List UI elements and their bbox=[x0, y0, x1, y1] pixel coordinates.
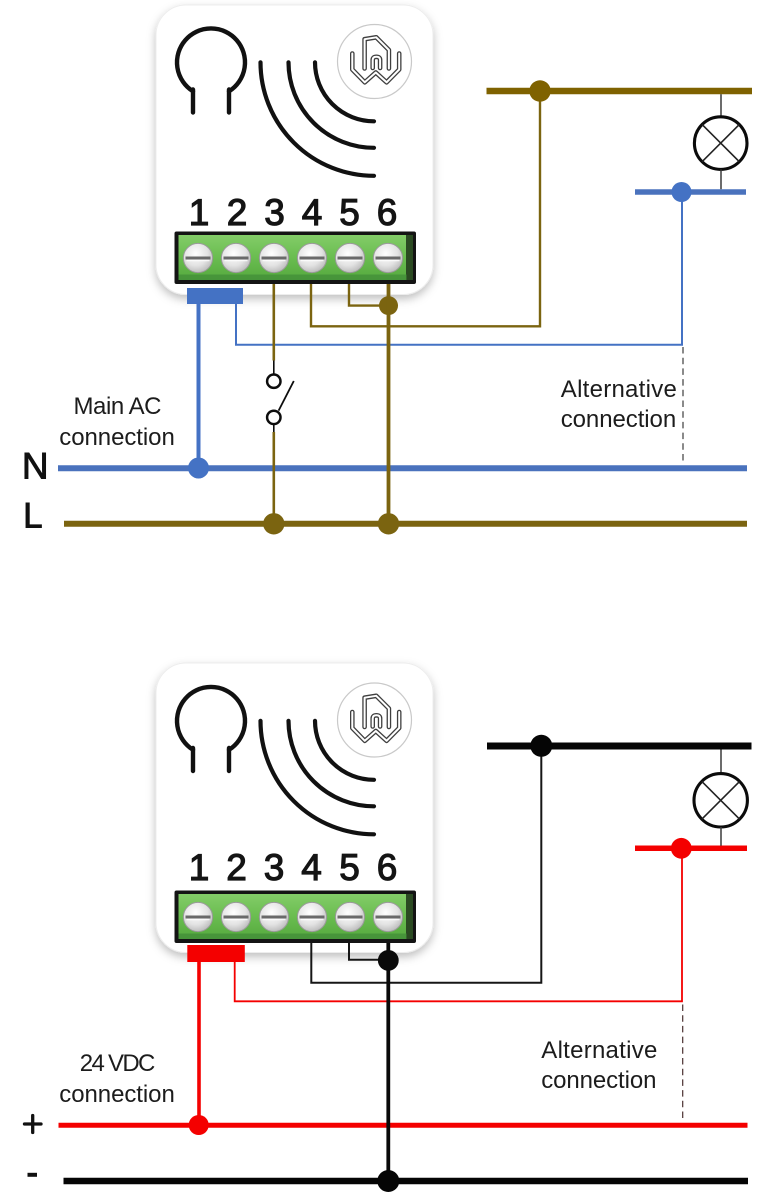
junction dot switch on L bus bbox=[263, 513, 284, 534]
svg-text:L: L bbox=[23, 497, 42, 536]
plus bus line (red) bbox=[59, 1123, 748, 1128]
svg-text:6: 6 bbox=[377, 192, 398, 233]
junction dot terminal 6 on L bus bbox=[378, 513, 399, 534]
wire N feed (terminal 1 to N bus, blue) bbox=[197, 304, 201, 466]
svg-text:24 VDC: 24 VDC bbox=[80, 1050, 156, 1077]
bulb icon on U2 bbox=[177, 687, 245, 771]
junction dot on olive lamp feed bus bbox=[529, 80, 550, 101]
screw terminals 1-6 (top module) bbox=[183, 243, 402, 272]
wire terminal 4 loop to lamp feed bus (olive) bbox=[311, 94, 540, 326]
wire blue loop (terminal 2 to lamp return bus) bbox=[236, 194, 682, 345]
screw terminals 1-6 (bottom module) bbox=[183, 902, 402, 931]
blue connector block on terminals 1-2 bbox=[187, 288, 243, 304]
label plus bbox=[25, 1116, 42, 1133]
svg-text:4: 4 bbox=[302, 192, 323, 233]
L bus line bbox=[64, 521, 747, 527]
label L bbox=[23, 497, 42, 536]
wire lamp bottom lead (bottom) bbox=[720, 827, 722, 846]
wire terminal 4 loop to lamp feed bus (black) bbox=[311, 749, 541, 983]
olive lamp feed bus bbox=[487, 88, 753, 95]
black lamp feed bus bbox=[487, 743, 752, 750]
red lamp-return bus (alternative, bottom) bbox=[635, 846, 747, 852]
terminal block J1 (top module) bbox=[175, 232, 417, 285]
svg-text:2: 2 bbox=[227, 192, 248, 233]
terminal numbers 1-6 (bottom module) bbox=[189, 847, 398, 888]
switch SW1 (wall switch, open) bbox=[267, 361, 294, 433]
junction dot on blue lamp-return bus bbox=[672, 182, 692, 202]
svg-text:6: 6 bbox=[377, 847, 398, 888]
svg-text:4: 4 bbox=[301, 847, 322, 888]
svg-text:connection: connection bbox=[561, 406, 677, 433]
label 24 VDC connection bbox=[59, 1050, 175, 1108]
logo badge circle on U1 bbox=[338, 25, 412, 99]
dashed alternative marker (top) bbox=[682, 347, 684, 464]
svg-text:connection: connection bbox=[59, 1081, 175, 1108]
svg-text:5: 5 bbox=[339, 847, 360, 888]
svg-text:Alternative: Alternative bbox=[561, 376, 677, 403]
label Alternative connection (bottom) bbox=[541, 1037, 657, 1094]
svg-text:5: 5 bbox=[339, 192, 360, 233]
junction dot terminal 5/6 (bottom) bbox=[378, 950, 399, 971]
svg-text:N: N bbox=[22, 446, 49, 487]
terminal numbers 1-6 (top module) bbox=[189, 192, 398, 233]
svg-text:connection: connection bbox=[59, 424, 175, 451]
wire terminal 6 to minus bus (black) bbox=[386, 943, 390, 1181]
lamp E1 (top diagram) bbox=[694, 117, 747, 170]
svg-text:3: 3 bbox=[264, 847, 285, 888]
wire red loop (terminal 2 to lamp return bus) bbox=[235, 850, 682, 1001]
logo badge circle on U2 bbox=[338, 683, 412, 757]
wire terminal 5 to terminal 6 (olive) bbox=[349, 284, 389, 306]
label N bbox=[22, 446, 49, 487]
svg-text:Main AC: Main AC bbox=[74, 393, 162, 420]
wire terminal 5 to terminal 6 (black) bbox=[349, 943, 388, 960]
junction dot on red lamp-return bus bbox=[671, 838, 692, 859]
label Alternative connection (top) bbox=[561, 376, 677, 433]
wifi arcs icon on U2 bbox=[261, 721, 375, 835]
wifi arcs icon on U1 bbox=[261, 62, 375, 176]
module U2 body (smart relay, bottom diagram) bbox=[156, 663, 433, 953]
wire switch to L bus (olive) bbox=[272, 432, 275, 521]
blue lamp-return bus (alternative) bbox=[635, 189, 746, 195]
wire lamp top lead (bottom) bbox=[720, 750, 722, 774]
N bus line bbox=[58, 465, 747, 471]
svg-text:3: 3 bbox=[264, 192, 285, 233]
wire terminal 3 to switch (olive) bbox=[272, 284, 275, 361]
minus bus line (black) bbox=[64, 1178, 749, 1185]
wire lamp bottom lead bbox=[720, 169, 722, 189]
junction dot terminal 6 on minus bus bbox=[377, 1170, 399, 1192]
label Main AC connection bbox=[59, 393, 175, 451]
junction dot on black lamp feed bus bbox=[530, 735, 552, 757]
module U1 body (smart relay, top diagram) bbox=[156, 5, 433, 295]
svg-text:1: 1 bbox=[189, 847, 210, 888]
svg-text:1: 1 bbox=[189, 192, 210, 233]
junction dot terminal 5/6 bbox=[379, 296, 398, 315]
svg-text:2: 2 bbox=[226, 847, 247, 888]
svg-text:connection: connection bbox=[541, 1067, 656, 1094]
svg-text:Alternative: Alternative bbox=[541, 1037, 657, 1064]
logo W maze mark bbox=[352, 37, 399, 82]
bulb icon on U1 bbox=[177, 28, 245, 112]
label minus bbox=[28, 1173, 38, 1177]
lamp E2 (bottom diagram) bbox=[694, 774, 747, 827]
wire lamp top lead bbox=[720, 94, 722, 117]
wire terminal 6 to L bus (olive) bbox=[387, 284, 391, 521]
junction dot on plus bus bbox=[189, 1115, 209, 1135]
dashed alternative marker (bottom) bbox=[682, 1005, 684, 1122]
wire +24V feed (terminal 1 to + bus, red) bbox=[197, 962, 201, 1123]
red connector block on terminals 1-2 bbox=[187, 945, 245, 962]
junction dot on N bus bbox=[188, 458, 209, 479]
logo W maze mark (bottom) bbox=[352, 696, 399, 741]
terminal block J2 (bottom module) bbox=[175, 891, 417, 944]
